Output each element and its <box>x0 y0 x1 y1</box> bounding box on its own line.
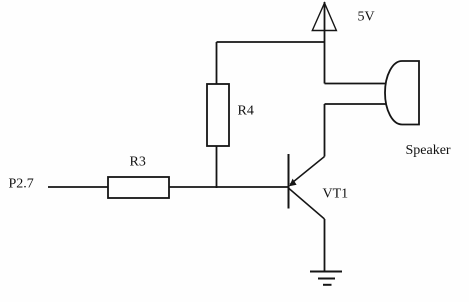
wire top horizontal from R4 branch to 5V rail <box>217 41 325 43</box>
wire 5V vertical from triangle apex down to speaker top terminal <box>324 2 326 84</box>
wire emitter vertical down to ground <box>324 219 326 272</box>
svg-text:R4: R4 <box>238 104 254 119</box>
wire vertical from top wire down to R4 <box>216 42 218 84</box>
speaker symbol <box>385 61 419 125</box>
svg-text:5V: 5V <box>358 10 375 25</box>
transistor VT1 base bar <box>288 154 290 209</box>
resistor R3 <box>108 177 169 198</box>
ground symbol <box>310 272 342 285</box>
transistor VT1 emitter arrowhead <box>289 179 296 187</box>
svg-text:P2.7: P2.7 <box>9 177 34 192</box>
resistor R4 <box>207 84 229 146</box>
transistor VT1 emitter diagonal (upper, with arrow into base) <box>290 157 325 185</box>
wire speaker top terminal horizontal <box>325 83 386 85</box>
svg-text:Speaker: Speaker <box>406 143 451 158</box>
svg-text:R3: R3 <box>130 155 146 170</box>
wire speaker bottom terminal horizontal <box>325 103 386 105</box>
power symbol 5V triangle <box>312 3 336 31</box>
transistor VT1 collector diagonal (lower) <box>289 189 325 220</box>
wire base horizontal from P2.7 through R3 to transistor <box>48 186 289 188</box>
wire collector vertical up to speaker bottom terminal <box>324 104 326 157</box>
wire R4 bottom lead to base node <box>216 146 218 188</box>
svg-text:VT1: VT1 <box>323 187 349 202</box>
